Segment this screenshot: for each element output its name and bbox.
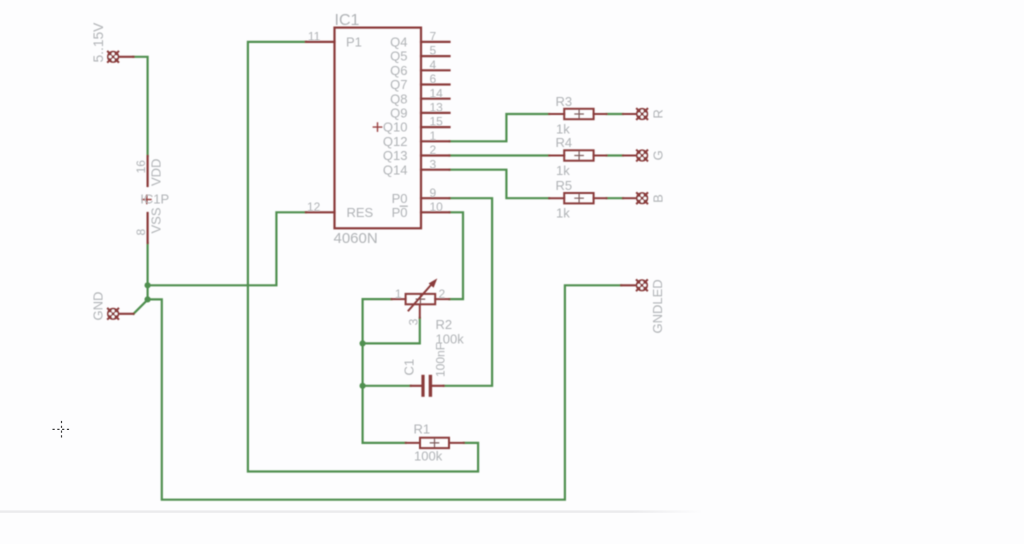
supply pin symbol 5..15V <box>107 51 119 63</box>
resistor R4 body <box>549 150 636 160</box>
svg-text:13: 13 <box>430 101 444 115</box>
svg-text:6: 6 <box>430 72 437 86</box>
svg-text:1: 1 <box>395 287 402 301</box>
wire GND diagonal from GND pin <box>134 300 148 314</box>
svg-text:P1: P1 <box>346 35 362 50</box>
pin stub GNDLED <box>621 284 636 286</box>
wire VSS pin to GND junction <box>147 243 149 299</box>
svg-text:1k: 1k <box>556 163 570 178</box>
svg-text:Q5: Q5 <box>390 49 407 64</box>
potentiometer R2 body <box>392 294 450 318</box>
junction C1 / RC node <box>360 383 366 389</box>
mouse crosshair cursor <box>53 421 71 438</box>
svg-text:1k: 1k <box>556 121 570 136</box>
svg-text:3: 3 <box>406 318 420 325</box>
svg-text:B: B <box>650 194 665 203</box>
svg-text:R3: R3 <box>556 94 573 109</box>
origin cross R4 <box>575 151 583 159</box>
resistor R1 body <box>406 438 464 448</box>
wire C1 right plate to pin 9 P0 <box>444 198 493 386</box>
wire GND to RES (pin 12) <box>148 212 306 285</box>
svg-text:G: G <box>650 150 665 160</box>
svg-text:VDD: VDD <box>149 159 164 186</box>
origin cross IC1 at Q10 <box>373 123 381 131</box>
svg-text:Q7: Q7 <box>390 77 407 92</box>
wire pin 1 Q12 to R3 <box>450 114 550 141</box>
wire pin 2 Q13 to R4 <box>450 154 550 156</box>
potentiometer R2 wiper arrow <box>409 286 431 311</box>
wire RC node: R1 left, C1 left, pot pin1 <box>363 299 406 443</box>
IC U1 body <box>335 28 422 229</box>
resistor R5 body <box>549 193 636 203</box>
svg-text:1k: 1k <box>556 206 570 221</box>
svg-text:1: 1 <box>430 129 437 143</box>
pin numbers right side <box>430 30 444 214</box>
svg-text:IC1P: IC1P <box>140 191 169 206</box>
svg-text:R: R <box>650 109 665 118</box>
svg-text:Q4: Q4 <box>390 35 407 50</box>
svg-text:Q8: Q8 <box>390 91 407 106</box>
wire pot pin3 to RC node <box>363 318 420 344</box>
svg-text:7: 7 <box>430 30 437 44</box>
svg-text:4: 4 <box>430 58 437 72</box>
GND pin symbol <box>107 308 119 320</box>
resistor R3 body <box>549 109 636 119</box>
divider line bottom <box>0 510 703 512</box>
capacitor C1 plates <box>421 375 432 397</box>
svg-text:GNDLED: GNDLED <box>650 279 665 333</box>
origin cross IC1P <box>143 195 151 203</box>
pin stubs IC right side <box>421 42 450 212</box>
pin names Q4-Q14 P0 <box>383 35 408 220</box>
svg-text:5: 5 <box>430 44 437 58</box>
origin cross R3 <box>575 110 583 118</box>
svg-text:5..15V: 5..15V <box>91 22 106 63</box>
svg-text:RES: RES <box>347 205 374 220</box>
text layer <box>91 12 666 464</box>
wire R4 to pin G <box>607 154 623 156</box>
capacitor C1 stubs <box>411 385 444 387</box>
pin stub supply <box>119 56 134 58</box>
svg-text:2: 2 <box>439 287 446 301</box>
wire P1 (pin 11) to R1 right <box>248 42 478 472</box>
svg-text:GND: GND <box>91 292 106 321</box>
svg-text:2: 2 <box>430 143 437 157</box>
junction at GND branch <box>145 296 151 302</box>
LED pin symbol R <box>636 108 648 120</box>
svg-text:VSS: VSS <box>149 207 164 233</box>
pin stub P1 pin 11 <box>306 41 335 43</box>
svg-text:Q10: Q10 <box>383 120 408 135</box>
svg-text:P0: P0 <box>392 191 408 206</box>
pin stub VSS pin 8 <box>147 213 149 243</box>
svg-text:R1: R1 <box>414 422 431 437</box>
svg-text:9: 9 <box>430 186 437 200</box>
origin cross R5 <box>575 194 583 202</box>
svg-text:R2: R2 <box>436 317 453 332</box>
wire pin 10 P0| to pot pin2 <box>449 212 463 299</box>
svg-text:14: 14 <box>430 86 444 100</box>
wire C1 left plate to RC node <box>363 385 411 387</box>
svg-text:Q12: Q12 <box>383 134 408 149</box>
svg-text:15: 15 <box>430 115 444 129</box>
svg-text:IC1: IC1 <box>335 12 360 29</box>
svg-text:12: 12 <box>307 200 321 214</box>
svg-text:Q6: Q6 <box>390 63 407 78</box>
svg-text:16: 16 <box>134 160 148 174</box>
svg-text:10: 10 <box>430 200 444 214</box>
svg-text:8: 8 <box>134 229 148 236</box>
LED pin symbol G <box>636 149 648 161</box>
wire R3 to pin R <box>607 113 623 115</box>
svg-text:4060N: 4060N <box>334 230 378 247</box>
svg-text:3: 3 <box>430 157 437 171</box>
pin stub GND <box>119 313 134 315</box>
svg-text:C1: C1 <box>402 359 417 376</box>
svg-text:P0: P0 <box>392 205 408 220</box>
overline on P0| <box>400 205 408 207</box>
svg-text:100nF: 100nF <box>433 343 447 377</box>
svg-text:100k: 100k <box>414 449 443 464</box>
LED pin symbol B <box>636 192 648 204</box>
wire R5 to pin B <box>607 197 623 199</box>
GNDLED pin symbol <box>636 279 648 291</box>
svg-text:Q9: Q9 <box>390 106 407 121</box>
wire GND rail to GNDLED <box>148 285 622 499</box>
pin stub VDD pin 16 <box>147 156 149 186</box>
svg-text:R4: R4 <box>556 135 573 150</box>
junction pot pin3 / RC node <box>360 340 366 346</box>
svg-text:Q14: Q14 <box>383 162 408 177</box>
svg-text:R5: R5 <box>556 178 573 193</box>
origin cross R2 <box>416 295 424 303</box>
svg-text:Q13: Q13 <box>383 148 408 163</box>
svg-text:11: 11 <box>308 30 321 44</box>
origin cross R1 <box>430 439 438 447</box>
pin stub RES pin 12 <box>306 211 335 213</box>
wire VCC: supply to VDD <box>133 57 148 156</box>
junction at VSS / RES wire <box>145 282 151 288</box>
wire pin 3 Q14 to R5 <box>450 170 550 199</box>
